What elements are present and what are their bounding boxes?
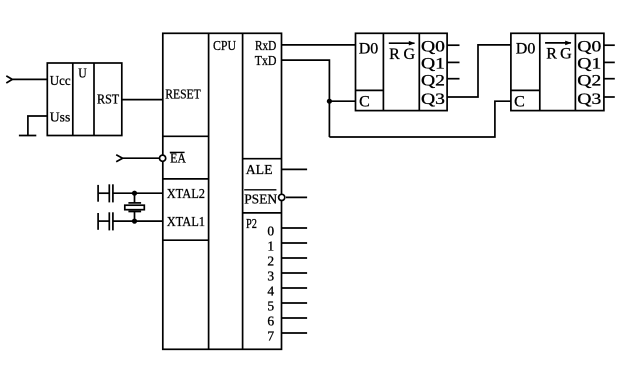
wire TxD (282, 60, 330, 137)
label Q0 (RG2) (577, 39, 601, 56)
svg-text:XTAL1: XTAL1 (167, 215, 205, 230)
wire Q3 stub RG2 (604, 96, 615, 98)
svg-text:5: 5 (267, 299, 274, 314)
ground (19, 135, 36, 137)
svg-text:RESET: RESET (165, 88, 201, 103)
svg-text:PSEN: PSEN (244, 193, 277, 208)
pin EA circle (160, 155, 166, 161)
label RG2 with arrow (545, 41, 572, 63)
svg-text:3: 3 (267, 269, 274, 284)
svg-text:D0: D0 (516, 40, 536, 57)
wire Q1 stub RG1 (447, 61, 459, 63)
label C (RG2) (514, 93, 525, 110)
junction TxD clock (327, 99, 332, 104)
wire Q3 RG1 to D0 RG2 (447, 45, 511, 97)
svg-text:Ucc: Ucc (50, 74, 71, 89)
port P2 pins 0-7 (267, 223, 307, 343)
svg-text:C: C (359, 93, 370, 110)
label D0 (RG1) (359, 40, 379, 57)
svg-text:1: 1 (267, 238, 274, 253)
svg-text:TxD: TxD (255, 54, 277, 69)
cpu block U1 (163, 33, 282, 349)
wire XTAL2 (113, 192, 163, 194)
wire RST to RESET (122, 99, 163, 101)
wire clock bottom to C of RG2 (329, 101, 511, 137)
label Q3 (RG2) (577, 91, 601, 108)
junction XTAL1 (132, 219, 137, 224)
label TxD (255, 54, 277, 69)
svg-text:Uss: Uss (50, 111, 71, 126)
label ALE (246, 163, 273, 178)
svg-text:Q1: Q1 (577, 56, 601, 73)
svg-text:ALE: ALE (246, 163, 273, 178)
label U (78, 66, 87, 81)
input arrow to Ucc (6, 76, 12, 83)
wire XTAL1 (113, 220, 163, 222)
svg-text:Q0: Q0 (577, 39, 601, 56)
svg-text:RxD: RxD (255, 39, 276, 54)
svg-text:U: U (78, 66, 87, 81)
svg-text:C: C (514, 93, 525, 110)
junction XTAL2 (132, 191, 137, 196)
wire Q1 stub RG2 (604, 61, 615, 63)
svg-text:Q1: Q1 (421, 56, 445, 73)
label RESET (165, 88, 201, 103)
crystal XT1 (125, 193, 145, 221)
svg-text:P2: P2 (246, 217, 257, 232)
label Q1 (RG2) (577, 56, 601, 73)
label EA (overline) (170, 152, 187, 167)
svg-text:Q3: Q3 (421, 91, 445, 108)
label C (RG1) (359, 93, 370, 110)
label Ucc (50, 74, 71, 89)
label Q0 (RG1) (421, 39, 445, 56)
pin PSEN circle (279, 194, 285, 200)
wire Q0 stub RG1 (447, 44, 459, 46)
svg-text:RST: RST (97, 93, 120, 108)
label Q2 (RG1) (421, 73, 445, 90)
svg-text:CPU: CPU (213, 39, 236, 54)
wire Q2 stub RG2 (604, 78, 615, 80)
wire clock to C of RG1 (329, 100, 355, 102)
svg-text:D0: D0 (359, 40, 379, 57)
capacitor C1 (98, 184, 113, 202)
svg-text:Q3: Q3 (577, 91, 601, 108)
capacitor C2 (98, 212, 113, 230)
wire Uss to ground (28, 116, 47, 136)
wire ALE (282, 168, 308, 170)
input arrow to EA (116, 155, 122, 162)
wire EA input (123, 157, 160, 159)
label CPU (213, 39, 236, 54)
label D0 (RG2) (516, 40, 536, 57)
label Q3 (RG1) (421, 91, 445, 108)
svg-text:Q2: Q2 (421, 73, 445, 90)
svg-text:4: 4 (267, 284, 274, 299)
label XTAL2 (167, 187, 205, 202)
svg-text:6: 6 (267, 314, 274, 329)
svg-text:EA: EA (170, 152, 187, 167)
wire RxD to D0 (282, 44, 356, 46)
label RST (97, 93, 120, 108)
label RxD (255, 39, 276, 54)
shift register RG2 (511, 33, 604, 110)
svg-text:2: 2 (267, 253, 274, 268)
wire Ucc input (12, 78, 47, 80)
svg-text:Q0: Q0 (421, 39, 445, 56)
wire PSEN (286, 196, 307, 198)
label P2 (246, 217, 257, 232)
shift register RG1 (356, 33, 448, 110)
label XTAL1 (167, 215, 205, 230)
power/reset block U (47, 63, 122, 136)
svg-text:7: 7 (267, 329, 274, 344)
svg-text:0: 0 (267, 223, 274, 238)
svg-text:Q2: Q2 (577, 73, 601, 90)
wire Q0 stub RG2 (604, 44, 615, 46)
wire Q2 stub RG1 (447, 78, 459, 80)
label RG1 with arrow (389, 41, 416, 63)
label PSEN (overline) (244, 190, 277, 208)
svg-text:XTAL2: XTAL2 (167, 187, 205, 202)
label Q2 (RG2) (577, 73, 601, 90)
label Q1 (RG1) (421, 56, 445, 73)
svg-text:RG: RG (546, 46, 572, 63)
label Uss (50, 111, 71, 126)
